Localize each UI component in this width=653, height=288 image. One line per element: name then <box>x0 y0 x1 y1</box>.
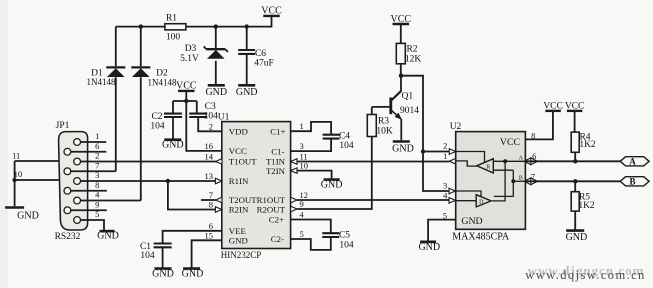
pin arrow U1 R1OUT out <box>291 197 297 203</box>
wire C1 to ground <box>162 247 164 267</box>
svg-text:D3: D3 <box>185 44 197 54</box>
bidirectional pin marks U2 pin 7 <box>524 178 537 185</box>
wire Q1 base <box>372 106 391 108</box>
wire JP1 pin 7 to D1 <box>71 170 116 172</box>
svg-text:C4: C4 <box>339 132 350 142</box>
svg-text:100: 100 <box>166 32 181 42</box>
svg-text:C6: C6 <box>255 49 266 59</box>
svg-text:104: 104 <box>339 240 354 250</box>
wire U2 VCC pin 8 <box>525 111 553 139</box>
wire D1 riser <box>115 27 117 172</box>
svg-text:VCC: VCC <box>176 81 197 92</box>
wire C3 to U1 pin 2 <box>198 117 222 131</box>
svg-text:C3: C3 <box>205 102 216 112</box>
svg-text:1K2: 1K2 <box>578 201 595 211</box>
wire U1 pin 3 to C4 <box>291 139 332 152</box>
receiver triangle R inside U2 <box>477 159 494 173</box>
capacitor C1 104 <box>140 242 172 261</box>
driver triangle D inside U2 <box>476 195 491 207</box>
svg-text:GND: GND <box>229 236 248 246</box>
svg-text:R2IN: R2IN <box>229 205 249 215</box>
connector JP1 DB9 RS232 <box>55 121 101 242</box>
ground U1 T2IN <box>321 179 343 190</box>
wire U1 T2IN to ground <box>297 171 332 179</box>
svg-text:GND: GND <box>205 87 227 98</box>
svg-text:R1OUT: R1OUT <box>257 195 286 205</box>
pin arrow U2 RE in <box>449 149 455 155</box>
wire VCC mid distribution <box>173 91 222 151</box>
wire R2 to collector node <box>400 64 402 76</box>
ground JP1 pin 5 <box>97 230 119 241</box>
svg-text:14: 14 <box>205 152 214 162</box>
svg-text:GND: GND <box>17 210 39 221</box>
wire U1 R1OUT to U2 DI <box>297 199 449 201</box>
svg-text:R1: R1 <box>166 14 177 24</box>
wire A net <box>525 160 620 162</box>
svg-text:11: 11 <box>12 150 20 160</box>
svg-text:10K: 10K <box>376 126 393 136</box>
svg-text:VCC: VCC <box>543 102 563 112</box>
svg-text:VCC: VCC <box>261 6 282 17</box>
svg-text:R3: R3 <box>378 117 389 127</box>
svg-text:15: 15 <box>205 230 214 240</box>
wire B row inside <box>513 180 525 182</box>
junction node U2 pin 2 branch <box>421 149 425 153</box>
junction node C6 top <box>245 24 249 28</box>
ground JP1 shell <box>5 208 39 222</box>
junction A inside <box>503 159 507 163</box>
svg-text:9014: 9014 <box>400 106 419 116</box>
svg-text:U2: U2 <box>450 122 462 132</box>
diode D2 1N4148 <box>131 67 177 87</box>
svg-text:VCC: VCC <box>229 146 247 156</box>
svg-text:47uF: 47uF <box>254 59 274 69</box>
bidirectional pin marks U2 pin 6 <box>524 158 537 165</box>
capacitor C3 104 <box>189 102 229 123</box>
svg-text:2: 2 <box>443 141 447 151</box>
junction B inside <box>511 179 515 183</box>
wire U2 DI inside <box>455 200 476 202</box>
wire JP1 pin 2 to U1 T1OUT <box>81 161 222 163</box>
svg-text:VCC: VCC <box>500 137 520 148</box>
wire C6 riser <box>246 27 248 84</box>
wire R5 to ground <box>574 211 576 230</box>
ground below U1 pin 15 <box>182 269 204 280</box>
capacitor C2 104 <box>150 112 182 132</box>
wire TXD branch to U1 R2IN <box>168 181 222 210</box>
svg-text:C5: C5 <box>339 230 350 240</box>
svg-text:GND: GND <box>152 269 174 280</box>
wire R input B inside <box>493 169 513 171</box>
pin arrow U2 RO out <box>449 158 455 164</box>
wire JP1 shell pin 11 <box>15 160 60 162</box>
svg-text:VDD: VDD <box>229 127 248 137</box>
svg-text:VEE: VEE <box>229 226 246 236</box>
ground below C6 <box>236 85 258 98</box>
svg-text:C2-: C2- <box>271 234 284 244</box>
svg-text:C1-: C1- <box>271 146 284 156</box>
svg-text:D: D <box>479 199 484 205</box>
wire VCC to R4 <box>574 111 576 132</box>
pin arrow U1 R1IN in <box>215 178 221 184</box>
op-amp U1 HIN232CP chip body <box>205 121 309 260</box>
ground below R5 <box>566 231 588 244</box>
wire U1 GND pin 15 to ground <box>192 240 222 267</box>
op-amp U2 MAX485CPA chip body <box>450 122 526 233</box>
wire JP1 pin 5 to ground <box>81 220 105 230</box>
wire JP1 shell pin 10 <box>15 179 60 181</box>
junction TXD node <box>166 179 170 183</box>
zener diode D3 5.1V <box>180 44 228 64</box>
pin arrow U1 R2IN in <box>215 207 221 213</box>
svg-text:GND: GND <box>97 230 119 241</box>
svg-text:JP1: JP1 <box>56 121 70 131</box>
wire U1 T2OUT stub <box>201 199 216 201</box>
svg-text:VCC: VCC <box>565 102 585 112</box>
wire top rail D1 to VCC <box>116 16 272 27</box>
svg-text:104: 104 <box>140 251 155 261</box>
svg-text:T2IN: T2IN <box>266 166 286 176</box>
wire U2 RO inside jog <box>456 161 477 166</box>
svg-text:T2OUT: T2OUT <box>229 195 257 205</box>
wire R4 to A net <box>574 152 576 161</box>
resistor R5 1K2 <box>571 192 595 211</box>
wire base to R3 <box>371 107 373 115</box>
svg-text:1N4148: 1N4148 <box>87 77 116 87</box>
junction R4 A <box>573 159 577 163</box>
wire JP1 pin 4 to D2 <box>81 200 141 202</box>
power VCC R4 <box>565 102 585 112</box>
svg-text:GND: GND <box>566 232 588 243</box>
capacitor C5 104 <box>322 230 354 250</box>
pin arrow U1 T1IN in <box>291 159 297 165</box>
svg-text:1: 1 <box>300 121 304 131</box>
junction R5 B <box>573 179 577 183</box>
ground below D3 <box>205 85 227 98</box>
wire JP1 pin 9 stub <box>71 209 107 211</box>
wire U1 VEE to C1 <box>163 231 222 243</box>
svg-text:2: 2 <box>209 121 213 131</box>
svg-text:GND: GND <box>418 242 440 253</box>
wire U2 DE enable drop <box>455 191 481 196</box>
junction VCC mid node <box>184 99 188 103</box>
svg-text:R1IN: R1IN <box>229 176 249 186</box>
svg-text:B: B <box>519 176 523 182</box>
wire D2 riser <box>140 27 142 201</box>
svg-text:1: 1 <box>443 151 447 161</box>
svg-text:GND: GND <box>182 269 204 280</box>
svg-text:GND: GND <box>236 87 258 98</box>
svg-text:GND: GND <box>162 139 184 150</box>
svg-text:T1OUT: T1OUT <box>229 157 257 167</box>
svg-text:RS232: RS232 <box>55 232 81 242</box>
svg-text:GND: GND <box>461 216 482 227</box>
svg-text:6: 6 <box>209 221 213 231</box>
wire VCC to R2 <box>400 24 402 43</box>
ground below C2 <box>162 139 184 150</box>
wire C2 to ground <box>172 117 174 139</box>
svg-text:12K: 12K <box>405 54 422 64</box>
svg-text:1: 1 <box>95 131 99 141</box>
svg-text:R2: R2 <box>406 45 417 55</box>
wire U1 pin 1 to C4 <box>291 122 332 134</box>
junction node D3 top <box>214 24 218 28</box>
svg-text:R: R <box>486 165 490 171</box>
port flag A <box>620 157 649 167</box>
wire U1 R2OUT to R3 <box>297 137 372 210</box>
ground below C1 <box>152 269 174 280</box>
diode D1 1N4148 <box>87 67 126 87</box>
wire R input A inside <box>493 160 525 162</box>
svg-text:104: 104 <box>204 112 219 122</box>
svg-text:GND: GND <box>321 179 343 190</box>
wire collector node to U2 RE DE <box>401 76 449 191</box>
svg-text:MAX485CPA: MAX485CPA <box>452 232 510 243</box>
wire D output to A <box>492 161 505 201</box>
power VCC U2 pin 8 <box>543 102 563 112</box>
wire U1 pin 4 to C5 <box>291 220 331 233</box>
svg-text:T1IN: T1IN <box>266 157 286 167</box>
transistor Q1 9014 <box>391 91 419 120</box>
resistor R4 1K2 <box>571 132 596 152</box>
svg-text:B: B <box>629 177 635 187</box>
pin arrow U1 T2OUT out <box>216 197 222 203</box>
svg-text:C2: C2 <box>151 112 162 122</box>
svg-text:16: 16 <box>205 141 214 151</box>
junction collector node <box>399 74 403 78</box>
wire U2 RE enable drop <box>456 152 485 163</box>
pin arrow U2 DE in <box>449 188 455 194</box>
svg-text:HIN232CP: HIN232CP <box>221 250 262 260</box>
power VCC mid <box>176 81 197 92</box>
svg-text:Q1: Q1 <box>401 92 413 102</box>
pin arrow U2 DI in <box>449 198 455 204</box>
svg-text:5.1V: 5.1V <box>180 54 199 64</box>
svg-text:GND: GND <box>392 144 414 155</box>
svg-text:104: 104 <box>150 122 165 132</box>
svg-text:VCC: VCC <box>391 14 412 25</box>
wire JP1 pin 6 stub <box>71 151 107 153</box>
svg-text:4: 4 <box>443 190 448 200</box>
capacitor C6 47uF <box>238 49 274 69</box>
svg-text:3: 3 <box>300 141 304 151</box>
wire shell ground riser <box>14 161 16 206</box>
svg-text:R2OUT: R2OUT <box>257 205 286 215</box>
ground below Q1 <box>392 142 414 155</box>
wire D output to B <box>494 170 513 196</box>
pin arrow U1 T2IN in <box>291 168 297 174</box>
wire B net to R5 <box>574 181 576 191</box>
svg-text:A: A <box>629 157 636 167</box>
resistor R3 10K <box>367 115 393 137</box>
wire JP1 pin 1 stub <box>81 141 107 143</box>
pin arrow U1 R2OUT out <box>291 206 297 212</box>
wire U2 GND pin 5 to ground <box>428 220 456 241</box>
svg-text:C2+: C2+ <box>269 215 284 225</box>
svg-text:5: 5 <box>300 229 304 239</box>
port flag B <box>620 177 649 187</box>
svg-text:www.dqjsw.com.cn: www.dqjsw.com.cn <box>525 268 645 282</box>
junction shell ground <box>12 178 16 182</box>
svg-text:1K2: 1K2 <box>579 140 596 150</box>
svg-text:13: 13 <box>205 171 214 181</box>
wire JP1 pin 3 to U1 R1IN <box>81 180 222 182</box>
svg-text:3: 3 <box>443 181 447 191</box>
svg-text:C1+: C1+ <box>270 126 285 136</box>
resistor R1 <box>165 14 186 43</box>
svg-text:7: 7 <box>209 190 213 200</box>
capacitor C4 104 <box>323 132 354 152</box>
power VCC Q1 <box>391 14 412 25</box>
svg-text:8: 8 <box>209 200 213 210</box>
wire D3 riser <box>215 27 217 84</box>
svg-text:104: 104 <box>339 141 354 151</box>
wire U1 T1IN to U2 RO <box>297 161 450 163</box>
wire U1 pin 5 to C5 <box>291 237 331 250</box>
wire B net <box>525 180 620 182</box>
ground U2 pin 5 <box>418 242 440 253</box>
svg-text:1N4148: 1N4148 <box>148 78 177 88</box>
resistor R2 12K <box>396 43 421 64</box>
wire Q1 emitter to ground <box>400 119 402 140</box>
pin arrow U1 T1OUT out <box>216 159 222 165</box>
junction node D2 top <box>139 24 143 28</box>
wire Q1 collector <box>391 76 401 101</box>
power VCC top <box>261 6 282 17</box>
wire JP1 pin 8 stub <box>71 190 107 192</box>
